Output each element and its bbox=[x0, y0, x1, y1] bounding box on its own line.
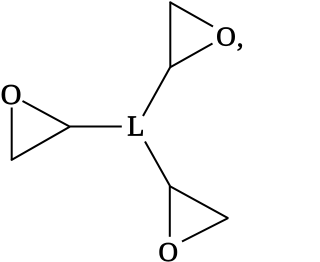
svg-text:O: O bbox=[1, 80, 22, 111]
epoxide ring 2 (top right): O-C bottom wire bbox=[170, 44, 213, 68]
epoxide ring 1 (left): bottom C-C wire bbox=[11, 127, 70, 161]
epoxide ring 3 (bottom): C-C top-right wire bbox=[170, 186, 229, 218]
svg-text:O: O bbox=[216, 21, 236, 51]
epoxide ring 1 (left): C-C left side wire bbox=[11, 108, 13, 161]
epoxide ring 2 (top right): C-C left side wire bbox=[169, 2, 171, 68]
bond wire: L to ring 2 (top right) bbox=[143, 67, 170, 116]
svg-text:,: , bbox=[237, 22, 244, 52]
epoxide ring 2 (top right): C-O top wire bbox=[170, 2, 213, 27]
bond wire: ring 1 to L bbox=[69, 126, 122, 128]
svg-text:O: O bbox=[159, 237, 179, 262]
epoxide ring 3 (bottom): C-O bottom-right wire bbox=[182, 218, 228, 242]
epoxide ring 3 (bottom): C-O left side wire bbox=[169, 186, 171, 237]
epoxide ring 1 (left): O-C top wire bbox=[23, 101, 71, 127]
svg-text:L: L bbox=[127, 112, 144, 143]
bond wire: L to ring 3 (bottom) bbox=[145, 142, 170, 187]
